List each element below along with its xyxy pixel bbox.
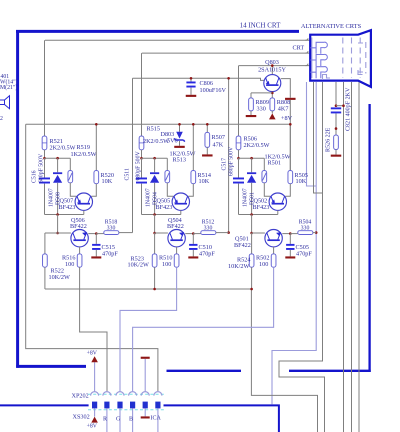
resistor R524 10K/2W xyxy=(249,254,254,267)
node: lower base node xyxy=(56,232,59,235)
wire: base node line xyxy=(45,214,84,216)
ground bar below pin 5 xyxy=(141,416,150,418)
resistor R809 330 xyxy=(249,98,254,111)
ground below C515 xyxy=(91,256,101,258)
transistor Q505 BF423 xyxy=(172,193,189,210)
wire: R518 output xyxy=(119,232,133,234)
svg-text:R: R xyxy=(103,417,107,423)
node: junction on grid wire 1 xyxy=(342,104,345,107)
wire: base node line xyxy=(142,214,181,216)
wire: Q506 collector down xyxy=(79,247,81,254)
node: emitter node xyxy=(95,232,98,235)
ground below R526 xyxy=(331,155,342,157)
svg-text:ICA: ICA xyxy=(151,415,162,421)
speaker LS401 symbol xyxy=(0,96,10,109)
capacitor C515 470pF xyxy=(95,234,97,244)
svg-text:XP202: XP202 xyxy=(72,392,89,399)
wire: pin 4 bottom stub xyxy=(132,408,134,432)
wire: channel 3 cathode feed vertical xyxy=(238,66,240,136)
svg-text:1N4007: 1N4007 xyxy=(145,188,151,207)
svg-text:BF422: BF422 xyxy=(167,223,184,230)
node: cathode node diode xyxy=(153,157,156,160)
wire: cathode line 3 to CRT xyxy=(239,65,310,67)
wire: thick blue bus top xyxy=(16,30,299,33)
svg-text:XS302: XS302 xyxy=(73,414,90,421)
wire: Q505 base down xyxy=(180,210,182,214)
svg-text:680pF 500V: 680pF 500V xyxy=(136,151,142,181)
diode D504 1N4007 xyxy=(154,158,156,172)
resistor R526 22E xyxy=(334,135,339,150)
node: cathode node diode xyxy=(56,157,59,160)
CRT electron gun 3 xyxy=(310,67,327,79)
transistor Q507 BF423 xyxy=(75,193,92,210)
ground below R507 xyxy=(202,154,213,156)
wire: CRT heater wire gray xyxy=(314,82,323,193)
wire: thick blue bus bottom middle segment xyxy=(167,370,242,372)
svg-text:BF423: BF423 xyxy=(253,204,270,211)
wire: base node to lower base node xyxy=(154,215,156,234)
svg-text:BF423: BF423 xyxy=(59,204,76,211)
connector XS302 pin 5 square xyxy=(143,402,148,409)
wire: thick blue bus bottom right horizontal xyxy=(289,370,371,372)
wire: R522 from lower base line xyxy=(44,233,46,254)
wire: Q501 collector down xyxy=(273,247,275,254)
capacitor C806 100uF16V xyxy=(186,82,195,84)
svg-text:R526 22E: R526 22E xyxy=(326,127,332,152)
svg-text:CRT: CRT xyxy=(293,44,305,51)
svg-text:1N4007: 1N4007 xyxy=(48,188,54,207)
ground below C510 xyxy=(188,256,198,258)
resistor R519 1K2/0.5W xyxy=(69,158,71,170)
ground below R809 xyxy=(246,115,257,117)
ground bar right of Q803 xyxy=(285,98,296,100)
node: D803 junction xyxy=(178,123,181,126)
wire: lower base line xyxy=(252,232,265,234)
node: base line junction xyxy=(227,77,230,80)
ground below D803 xyxy=(174,146,185,148)
svg-text:R513: R513 xyxy=(173,157,186,164)
cyan dashed connector lines xyxy=(88,393,164,395)
wire: thick blue bus right vertical xyxy=(368,104,370,372)
wire: bottom common rail xyxy=(45,288,252,290)
resistor R513 1K2/0.5W xyxy=(166,158,168,170)
connector XS302 pin 3 square xyxy=(117,402,122,409)
resistor R515 2K2/0.5W xyxy=(139,136,144,150)
wire: pin 3 bottom stub xyxy=(119,408,121,432)
wire: lower base line xyxy=(155,232,168,234)
ground bar above pin 5 xyxy=(141,357,150,359)
node: cathode node left xyxy=(43,157,46,160)
node: R507 junction xyxy=(206,123,209,126)
svg-text:4K7: 4K7 xyxy=(278,105,289,112)
wire: CRT grid wire 2 xyxy=(351,82,353,432)
svg-text:Q803: Q803 xyxy=(265,59,279,66)
wire: base node to lower base node xyxy=(57,215,59,234)
svg-text:330: 330 xyxy=(107,226,116,232)
svg-text:10K/2W: 10K/2W xyxy=(128,262,149,269)
svg-text:+8V: +8V xyxy=(87,350,98,356)
svg-text:G: G xyxy=(116,417,121,423)
CRT grid dashed electrodes xyxy=(342,38,344,79)
CRT anode pin mark xyxy=(358,70,363,75)
svg-text:330: 330 xyxy=(204,226,213,232)
svg-text:R519: R519 xyxy=(77,144,90,151)
node: base node xyxy=(250,213,253,216)
svg-text:+8V: +8V xyxy=(281,115,293,122)
svg-text:R507: R507 xyxy=(212,134,225,141)
CRT electron gun 2 xyxy=(310,54,327,66)
wire: CRT grid wire 3 xyxy=(358,82,360,432)
ground below C806 xyxy=(186,95,197,97)
svg-text:B: B xyxy=(129,417,133,423)
resistor R510 100 xyxy=(174,254,179,267)
wire: vertical from base line to R512 output xyxy=(228,78,230,232)
wire: Q504 emitter to C node xyxy=(185,233,193,235)
connector XS302 pin 4 square xyxy=(130,402,135,409)
svg-text:330: 330 xyxy=(301,226,310,232)
resistor R518 330 horizontal xyxy=(96,233,104,235)
resistor R523 10K/2W xyxy=(152,254,157,267)
CRT input pin hooks xyxy=(306,38,309,65)
wire: blue line to XS302 left xyxy=(0,404,89,406)
svg-text:ALTERNATIVE CRTS: ALTERNATIVE CRTS xyxy=(301,23,362,30)
+8V arrow below R808 xyxy=(269,113,276,119)
capacitor C511 680pF 500V xyxy=(141,158,143,177)
wire: pin6 bottom stub xyxy=(157,408,159,432)
transistor Q502 BF423 xyxy=(269,193,286,210)
node: lower base node xyxy=(153,232,156,235)
svg-text:BF422: BF422 xyxy=(70,223,87,230)
CRT tube outline xyxy=(310,30,371,87)
wire: CRT cathode-3 feed / heater return xyxy=(272,82,316,404)
wire: blue line from XS302 right going down xyxy=(164,405,279,432)
svg-text:680pF 500V: 680pF 500V xyxy=(229,146,235,176)
node: 10K to +8V rail xyxy=(192,123,195,126)
wire: CRT heater wire violet xyxy=(307,82,317,186)
svg-text:BF423: BF423 xyxy=(156,204,173,211)
wire: C821 branch from CRT xyxy=(335,82,337,106)
capacitor C821 400pF 2KV xyxy=(331,107,341,109)
node: base node xyxy=(56,213,59,216)
svg-text:100: 100 xyxy=(65,261,74,268)
capacitor C517 680pF 500V xyxy=(238,158,240,177)
svg-text:C511: C511 xyxy=(125,168,131,180)
node: lower base node xyxy=(250,232,253,235)
connector XP202 pin 4 arc xyxy=(129,392,137,396)
svg-text:680pF 500V: 680pF 500V xyxy=(39,153,45,183)
capacitor C516 680pF 500V xyxy=(44,158,46,177)
svg-text:100: 100 xyxy=(259,261,268,268)
wire: R523 from lower base node xyxy=(154,233,156,254)
svg-text:+8V: +8V xyxy=(87,423,98,429)
wire: R507 stub from +8V rail xyxy=(206,124,208,132)
connector XS302 pin 1 square xyxy=(92,402,97,409)
node: Q803 bottom junction xyxy=(271,92,274,95)
connector XP202 pin 1 arc xyxy=(91,392,99,396)
node: R504 output to CRT line xyxy=(315,231,318,234)
wire: R504 output xyxy=(313,232,316,234)
resistor R506 2K2/0.5W xyxy=(236,136,241,150)
ground below C505 xyxy=(285,256,295,258)
wire: left box edge down to ICA line xyxy=(26,124,158,391)
wire: lower base line xyxy=(45,232,71,234)
resistor R505 10K xyxy=(289,124,291,170)
wire: Q507 base down xyxy=(83,210,85,214)
zener diode D803 5V6 xyxy=(176,132,183,139)
resistor R520 10K xyxy=(95,124,97,170)
resistor R512 330 horizontal xyxy=(193,233,201,235)
wire: channel 2 cathode feed vertical xyxy=(141,53,143,136)
CRT electron gun 1 xyxy=(310,42,327,54)
svg-text:R515: R515 xyxy=(147,125,160,132)
+8V arrow below pin 1 xyxy=(91,417,98,423)
diode D508 1N4007 xyxy=(57,158,59,172)
wire: R524 from lower base node xyxy=(251,233,253,254)
wire: Q803 collector up to cathode line 3 xyxy=(271,66,273,75)
svg-text:10K: 10K xyxy=(296,178,307,185)
node: R512 output junction xyxy=(227,231,230,234)
capacitor C505 470pF xyxy=(289,234,291,244)
wire: R506 to node xyxy=(238,150,240,158)
wire: base node line xyxy=(239,214,278,216)
wire: thick blue bus bottom-left corner xyxy=(16,365,86,368)
svg-text:2SA1015Y: 2SA1015Y xyxy=(258,66,286,73)
wire: CRT grid wire 1 xyxy=(343,82,345,432)
wire: Q504 collector down xyxy=(176,247,178,254)
resistor R501 1K2/0.5W xyxy=(263,158,265,170)
node: C821 bottom junction xyxy=(335,127,338,130)
wire: +8V feed rail xyxy=(26,123,291,125)
wire: R515 to node xyxy=(141,150,143,158)
wire: pin5 ground stub xyxy=(144,359,146,392)
wire: base node to lower base node xyxy=(251,215,253,234)
capacitor C510 470pF xyxy=(192,234,194,244)
wire: node line xyxy=(239,157,265,159)
wire: node line xyxy=(45,157,71,159)
connector XP202 pin 3 arc xyxy=(116,392,124,396)
svg-text:330: 330 xyxy=(257,105,266,112)
node: 10K to +8V rail xyxy=(95,123,98,126)
svg-text:10K/2W: 10K/2W xyxy=(228,263,249,270)
resistor R808 4K7 xyxy=(270,98,275,111)
transistor Q504 BF422 xyxy=(168,230,185,247)
svg-text:470pF: 470pF xyxy=(296,250,312,257)
wire: junction to R809 xyxy=(251,92,272,94)
wire: vertical from line to R518 output xyxy=(132,78,134,232)
connector XS302 pin 6 square xyxy=(155,402,160,409)
wire: R521 to node xyxy=(44,150,46,158)
wire: C806 stub xyxy=(190,78,192,81)
svg-text:10K: 10K xyxy=(199,178,210,185)
wire: pin1 +8V stub xyxy=(94,362,96,391)
wire: Q803 emitter to bar xyxy=(281,79,291,98)
resistor R502 100 xyxy=(271,254,276,267)
wire: C821 junction to grid wire xyxy=(336,105,344,107)
resistor R516 100 xyxy=(77,254,82,267)
resistor R521 2K2/0.5W xyxy=(42,136,47,150)
connector XS302 pin 2 square xyxy=(104,402,109,409)
node: cathode node left xyxy=(140,157,143,160)
svg-text:1K2/0.5W: 1K2/0.5W xyxy=(71,151,97,158)
svg-text:C516: C516 xyxy=(32,170,38,183)
wire: pin5 bottom stub to ground xyxy=(144,408,146,416)
svg-text:14 INCH CRT: 14 INCH CRT xyxy=(240,21,282,29)
transistor Q501 BF422 xyxy=(265,230,282,247)
wire: cathode line 2 to CRT xyxy=(142,52,310,54)
wire: channel 1 cathode feed vertical xyxy=(44,40,46,136)
diode D501 1N4007 xyxy=(251,158,253,172)
wire: cathode line 1 to CRT xyxy=(45,39,310,41)
svg-text:47K: 47K xyxy=(213,141,224,148)
svg-text:100: 100 xyxy=(162,261,171,268)
node: rail junction xyxy=(250,288,253,291)
node: 10K to +8V rail xyxy=(289,123,292,126)
wire: Q803 base node down xyxy=(271,92,273,98)
node: cathode node diode xyxy=(250,157,253,160)
wire: pin1 bottom +8V xyxy=(94,408,96,416)
node: emitter node xyxy=(289,232,292,235)
svg-text:M(21"): M(21") xyxy=(0,84,17,91)
resistor R507 47K xyxy=(205,132,210,147)
CRT heater symbol xyxy=(323,75,331,81)
svg-text:2K2/0.5W: 2K2/0.5W xyxy=(143,138,169,145)
resistor R504 330 horizontal xyxy=(290,233,298,235)
wire: channel 3 output to pin B xyxy=(133,267,274,391)
+8V arrow above pin 1 xyxy=(91,356,98,362)
resistor R514 10K xyxy=(192,124,194,170)
transistor Q506 BF422 xyxy=(71,230,88,247)
wire: channel 1 output to pin R xyxy=(80,267,107,391)
connector XP202 pin 2 arc xyxy=(103,392,111,396)
transistor Q803 2SA1015Y xyxy=(264,75,281,92)
wire: R505 top from +8V rail xyxy=(289,124,291,170)
wire: Q506 emitter to C node xyxy=(88,233,96,235)
wire: CRT G2 wire staircase xyxy=(279,82,325,432)
node: C806 junction xyxy=(190,77,193,80)
svg-text:10K: 10K xyxy=(102,178,113,185)
wire: node line xyxy=(142,157,168,159)
svg-text:R501: R501 xyxy=(268,160,281,167)
wire: rail end down to bottom right xyxy=(251,289,317,432)
wire: R512 output xyxy=(216,232,229,234)
CRT G1 electrode line xyxy=(311,38,313,79)
svg-text:470pF: 470pF xyxy=(102,250,118,257)
resistor R522 10K/2W xyxy=(43,254,48,267)
CRT anode mark xyxy=(358,43,363,72)
svg-text:2K2/0.5W: 2K2/0.5W xyxy=(244,142,270,149)
node: emitter node xyxy=(192,232,195,235)
node: base node xyxy=(153,213,156,216)
wire: D803 stub from +8V rail xyxy=(179,124,181,131)
wire: thick blue bus left xyxy=(16,30,19,368)
wire: Q501 emitter to C node xyxy=(282,233,290,235)
svg-text:100uF16V: 100uF16V xyxy=(200,87,227,94)
svg-text:C821 400pF 2KV: C821 400pF 2KV xyxy=(346,87,352,131)
node: rail junction xyxy=(153,288,156,291)
svg-text:10K/2W: 10K/2W xyxy=(49,274,70,281)
node: C821 top junction xyxy=(335,104,338,107)
wire: C806 / Q803 base line xyxy=(133,78,265,80)
connector XP202 pin 6 arc xyxy=(154,392,162,396)
wire: pin 2 bottom stub xyxy=(106,408,108,432)
wire: Q502 base down xyxy=(277,210,279,214)
svg-text:1N4007: 1N4007 xyxy=(242,188,248,207)
svg-text:C517: C517 xyxy=(222,158,228,171)
node: cathode node left xyxy=(237,157,240,160)
svg-text:2: 2 xyxy=(0,116,3,122)
svg-text:BF422: BF422 xyxy=(234,242,251,249)
wire: channel 2 output to pin G xyxy=(120,267,177,391)
connector XP202 pin 5 arc xyxy=(141,392,149,396)
node: Q803 collector junction on line 3 xyxy=(271,64,274,67)
wire: bar to +8V feed rail xyxy=(289,100,291,124)
svg-text:470pF: 470pF xyxy=(199,250,215,257)
